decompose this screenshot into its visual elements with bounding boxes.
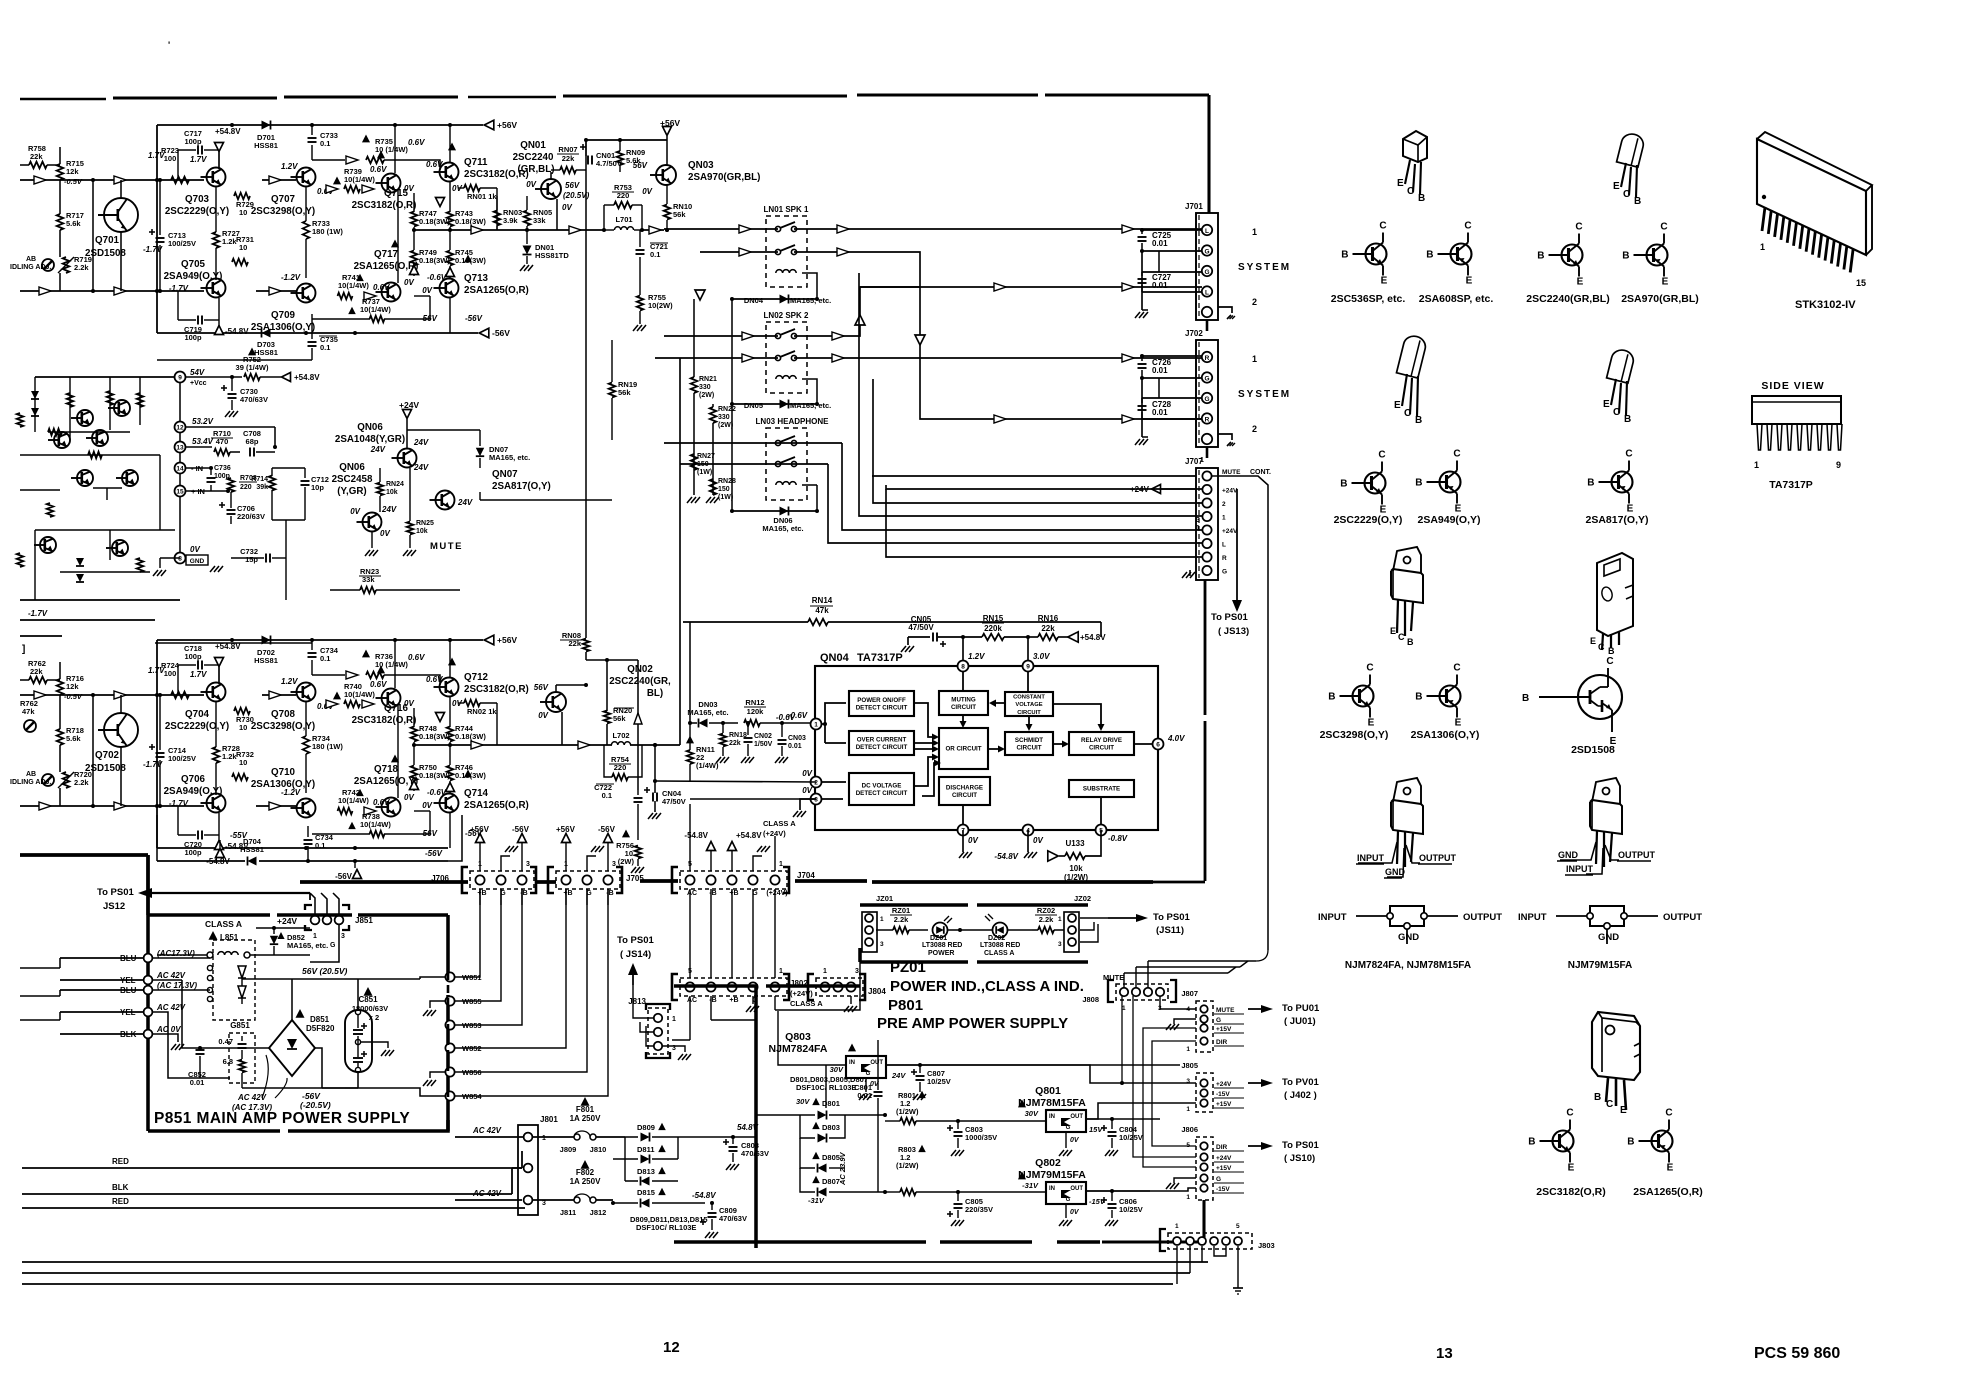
svg-text:Q708: Q708 [271,709,296,720]
svg-text:QN02: QN02 [627,664,653,675]
svg-text:2SA949(O,Y): 2SA949(O,Y) [1417,514,1480,526]
label NJM79M15FA [1568,960,1632,971]
svg-text:E: E [1455,504,1462,515]
svg-text:DN05: DN05 [744,401,763,410]
resistor RN21 330 (2W) [687,299,717,503]
svg-text:GND: GND [1558,850,1579,860]
svg-text:J809: J809 [560,1145,577,1154]
block RELAY DRIVE CIRCUIT [1069,732,1134,755]
transistor symbol 2SA1306 [1415,663,1461,729]
label D809 D811 D813 D815 DSF10C/RL103E [630,1215,708,1232]
module TA7317P side view [1752,380,1842,491]
svg-text:1: 1 [542,1135,546,1142]
svg-text:4: 4 [1186,1006,1190,1013]
svg-text:SIDE VIEW: SIDE VIEW [1761,380,1824,392]
svg-text:( JS14): ( JS14) [620,949,651,960]
svg-text:PZ01: PZ01 [890,959,926,976]
svg-text:RN07: RN07 [558,145,577,154]
svg-text:DISCHARGE: DISCHARGE [946,784,983,791]
node W854 [445,1091,482,1101]
resistor RN16 22k [961,614,1106,660]
ground TA7317P pin7 [959,830,972,858]
connector J702 [1185,329,1235,458]
wire relay crossover [855,252,1202,423]
svg-text:B: B [1341,250,1348,261]
svg-text:+B: +B [563,890,572,897]
resistor R742 [338,788,391,815]
label 2SC3298(O,Y) [1320,729,1389,741]
svg-text:3: 3 [1058,941,1062,948]
resistor R748 [411,708,451,745]
svg-text:Q713: Q713 [464,273,489,284]
svg-text:0.6V: 0.6V [373,283,390,292]
label 2SA970(GR,BL) [1621,293,1699,305]
block P801 border [674,986,1100,1248]
svg-text:G: G [1204,375,1209,382]
wire rectifier joins [678,1137,733,1203]
svg-text:HSS81: HSS81 [240,845,264,854]
svg-text:0.01: 0.01 [1152,408,1168,417]
svg-text:10(2W): 10(2W) [648,301,673,310]
svg-text:B: B [1608,646,1615,656]
svg-text:Q710: Q710 [271,767,296,778]
svg-text:OUT: OUT [1070,1186,1083,1192]
ground TA7317P pin4 [1024,830,1037,858]
svg-text:-56V: -56V [335,872,353,881]
svg-text:1: 1 [823,968,827,975]
svg-text:Q714: Q714 [464,788,489,799]
svg-text:OUTPUT: OUTPUT [1419,853,1457,863]
svg-text:0V: 0V [1033,836,1043,845]
label AC 42V arrows [232,1055,287,1112]
svg-text:1: 1 [1252,227,1257,237]
svg-text:2SA608SP, etc.: 2SA608SP, etc. [1419,293,1494,305]
connector J808 [1082,980,1176,1012]
svg-text:10(1/4W): 10(1/4W) [338,281,369,290]
svg-text:(1W): (1W) [697,469,712,476]
svg-text:1: 1 [1252,354,1257,364]
svg-text:0V: 0V [404,699,414,708]
resistor R752 39(1/4W) [186,348,320,383]
svg-text:3: 3 [341,933,345,940]
resistor R756 10 (2W) [616,830,644,874]
svg-text:To PS01: To PS01 [97,887,134,898]
wire J851 hooks [310,893,339,962]
svg-text:0.18(3W): 0.18(3W) [419,217,450,226]
block DISCHARGE CIRCUIT [939,777,990,805]
svg-text:22k: 22k [1041,624,1055,633]
svg-text:47k: 47k [815,606,829,615]
svg-text:(AC17.3V): (AC17.3V) [157,949,195,958]
diode STK internal D1 [31,391,39,416]
svg-text:CLASS A: CLASS A [763,819,796,828]
svg-text:(-20.5V): (-20.5V) [300,1100,331,1110]
node TA7317P pin 5 [1096,825,1107,836]
svg-text:2SA1265(O,R): 2SA1265(O,R) [464,800,529,811]
svg-text:47/50V: 47/50V [908,623,934,632]
wire mute bus vertical x1268 [1124,489,1268,988]
svg-text:100: 100 [164,154,177,163]
svg-text:(1/2W): (1/2W) [1064,873,1088,882]
svg-text:Q717: Q717 [374,249,399,260]
svg-text:220: 220 [240,484,252,491]
svg-text:3: 3 [855,968,859,975]
label AC 23.9V [838,1151,847,1186]
svg-text:INPUT: INPUT [1318,912,1347,923]
svg-text:0V: 0V [380,529,390,538]
svg-text:+56V: +56V [470,825,490,834]
resistor R740 [326,680,387,708]
svg-text:AC 42V: AC 42V [156,971,186,980]
resistor R744 [436,697,487,745]
resistor STK internal R1 [17,391,144,427]
svg-text:MA165, etc.: MA165, etc. [790,296,831,305]
label 2SD1508 [1571,744,1615,756]
svg-text:2SC3182(O,R): 2SC3182(O,R) [352,715,417,726]
svg-text:B: B [1415,478,1422,489]
svg-text:(2W): (2W) [718,422,733,429]
svg-text:1A 250V: 1A 250V [570,1114,602,1123]
svg-text:SYSTEM: SYSTEM [1238,389,1291,400]
svg-text:0.1: 0.1 [320,343,330,352]
svg-text:To PS01: To PS01 [1153,912,1190,923]
wire pin12 line [186,427,275,447]
svg-text:+24V: +24V [1222,528,1238,535]
svg-text:TA7317P: TA7317P [1769,479,1813,491]
svg-text:10(1/4W): 10(1/4W) [344,175,375,184]
connector J801 [472,1115,558,1215]
transistor STK internal Q1 [71,410,93,426]
diode D703 HSS81 ch1 bottom [254,329,278,358]
svg-text:10k: 10k [416,528,428,535]
svg-text:5: 5 [688,968,692,975]
svg-text:56k: 56k [673,210,686,219]
svg-text:IN: IN [1049,1114,1055,1120]
svg-text:1: 1 [1196,525,1200,532]
wire headphone lines [664,443,1202,570]
svg-text:B: B [1426,250,1433,261]
svg-text:+54.8V: +54.8V [736,831,762,840]
capacitor CN04 47/50V [644,743,686,819]
svg-text:B: B [1537,251,1544,262]
wire interstage upper [226,162,298,196]
svg-text:MUTE: MUTE [1216,1007,1235,1014]
LED DZ02 LT3088 RED CLASS A [960,914,1032,957]
svg-text:0.6V: 0.6V [408,138,425,147]
svg-text:2.2k: 2.2k [74,778,89,787]
fuse F802 1A 250V [533,1160,613,1217]
svg-text:56V (20.5V): 56V (20.5V) [302,966,348,976]
svg-text:CIRCUIT: CIRCUIT [951,704,976,711]
capacitor C734 [308,640,339,675]
svg-text:HSS81: HSS81 [254,656,278,665]
svg-text:D5F820: D5F820 [306,1024,335,1033]
svg-text:P851 MAIN AMP POWER SUPPLY: P851 MAIN AMP POWER SUPPLY [154,1110,410,1127]
wire speaker line ch1 lower [700,229,920,310]
wire ch1 output line to relays [497,226,700,234]
svg-text:R: R [1222,555,1227,562]
resistor R735 [312,135,440,171]
svg-text:DETECT CIRCUIT: DETECT CIRCUIT [856,790,908,797]
svg-text:330: 330 [699,384,711,391]
transistor Q701 [85,151,165,291]
svg-text:C: C [1398,632,1405,642]
capacitor C721 0.1 [636,230,669,259]
resistor R803 1.2 (1/2W) [883,1145,1046,1196]
diode D807 [800,1168,885,1205]
svg-text:POWER: POWER [928,950,954,957]
svg-text:2SA817(O,Y): 2SA817(O,Y) [1585,514,1648,526]
svg-text:2SD1508: 2SD1508 [85,763,126,774]
wire right border vertical to J701 [1207,95,1210,213]
svg-text:-1.2V: -1.2V [281,273,301,282]
svg-text:2SC2229(O,Y): 2SC2229(O,Y) [165,721,229,732]
wire To PS01 JS14 [617,935,654,1046]
svg-text:GND: GND [190,558,205,565]
svg-text:0.1: 0.1 [602,791,612,800]
svg-text:B: B [1627,1137,1634,1148]
svg-text:MUTE: MUTE [430,541,463,552]
svg-text:E: E [1397,178,1404,189]
svg-text:C: C [1606,1099,1613,1110]
svg-text:0.01: 0.01 [857,1091,872,1100]
svg-text:1A 250V: 1A 250V [570,1177,602,1186]
wire TA7317 pin2 pin3 feeds [655,781,816,799]
svg-text:15: 15 [1856,278,1866,288]
capacitor CN02 1/50V [741,723,773,763]
capacitor C732 15p [231,520,286,600]
svg-text:2: 2 [814,780,818,787]
resistor R755 10(2W) [633,257,673,331]
transistor symbol 2SA1265 [1627,1108,1673,1174]
wire input lower [20,802,204,810]
transistor symbol 2SA817 [1587,449,1633,515]
svg-text:(1W): (1W) [718,494,733,501]
svg-text:2.2k: 2.2k [74,263,89,272]
svg-text:G: G [1222,569,1227,576]
svg-text:Q701: Q701 [95,235,120,246]
svg-text:To PS01: To PS01 [617,935,654,946]
svg-text:-55V: -55V [230,831,248,840]
resistor R758 [20,144,60,168]
svg-text:B: B [1634,196,1641,207]
svg-text:2SC3182(O,R): 2SC3182(O,R) [1536,1186,1605,1198]
svg-text:0V: 0V [526,180,536,189]
wire J707 right loops [1212,476,1268,571]
svg-text:RN24: RN24 [386,481,404,488]
svg-text:D801: D801 [822,1099,840,1108]
label D801 D803 D805 D807 DSF10C [790,1075,868,1092]
svg-text:L: L [1205,289,1209,296]
svg-text:+15V: +15V [1216,1101,1232,1108]
resistor RN19 56k [609,340,637,440]
svg-text:B: B [1407,637,1414,647]
transistor Q704 [165,670,229,732]
svg-text:2: 2 [1252,297,1257,307]
svg-text:PCS 59 860: PCS 59 860 [1754,1345,1840,1362]
connector P851 AC inputs [60,949,197,1050]
resistor R747 [411,193,451,230]
svg-text:2SD1508: 2SD1508 [1571,744,1615,756]
svg-text:PRE AMP POWER SUPPLY: PRE AMP POWER SUPPLY [877,1015,1068,1032]
svg-text:P801: P801 [888,997,923,1014]
svg-text:C: C [1379,221,1386,232]
node W853 [445,1020,481,1030]
transistor STK internal Q5 [34,537,128,556]
label 2SA1265(O,R) [1633,1186,1702,1198]
transistor symbol 2SD1508 darlington [1522,656,1622,747]
svg-text:AC: AC [687,997,697,1004]
svg-text:-56V: -56V [420,314,438,323]
label 2SC2240(GR,BL) [1526,293,1609,305]
svg-text:1: 1 [1222,515,1226,522]
svg-text:SYSTEM: SYSTEM [1238,262,1291,273]
svg-text:0.18(3W): 0.18(3W) [419,256,450,265]
resistor R727 [213,187,240,280]
wire J704 feeds [684,804,796,871]
svg-text:E: E [1613,181,1620,192]
svg-text:(+24V): (+24V) [790,989,813,998]
capacitor C735 0.1 ch1 [308,314,338,360]
svg-text:RZ02: RZ02 [1037,906,1055,915]
capacitor C708 68p [243,429,277,457]
svg-text:J806: J806 [1181,1125,1198,1134]
svg-text:G: G [1204,269,1209,276]
resistor RN09 5.6k [617,140,645,172]
svg-text:DETECT CIRCUIT: DETECT CIRCUIT [856,744,908,751]
label PZ01 POWER IND CLASS A IND [890,959,1084,995]
connector J803 [1160,1223,1275,1251]
wire D702 feedback line [155,642,312,644]
package TO-92 2SC536SP [1397,131,1427,204]
resistor R746 [446,745,487,793]
svg-text:D803: D803 [822,1123,840,1132]
svg-text:+Vcc: +Vcc [190,380,207,387]
relay LN01 SPK1 [764,205,809,287]
resistor R708 220 [228,475,257,500]
transistor symbol 2SC3182 [1528,1108,1574,1174]
wire bottom long bus lines [22,1262,1208,1284]
svg-text:12: 12 [663,1339,680,1356]
transistor symbol 2SC2229 [1340,450,1386,516]
svg-text:220k: 220k [984,624,1002,633]
svg-text:10(1/4W): 10(1/4W) [338,796,369,805]
resistor R710 470 [186,429,240,455]
node TA7317P pin 3 [811,794,822,805]
svg-text:NJM79M15FA: NJM79M15FA [1568,960,1632,971]
svg-text:10: 10 [239,243,247,252]
wire J701 ground bus [1135,249,1159,318]
wire J704 to J802 verticals [690,889,775,978]
svg-text:10k: 10k [386,489,398,496]
svg-text:(2W): (2W) [618,857,635,866]
svg-text:56V: 56V [565,181,580,190]
wire output node row [306,741,497,848]
svg-text:2SC2229(O,Y): 2SC2229(O,Y) [1334,514,1403,526]
wire speaker line ch2 upper [664,310,860,340]
wire pin14 pin15 lines [186,466,230,493]
svg-text:DSF10C/ RL103E: DSF10C/ RL103E [636,1223,696,1232]
svg-text:C: C [1623,189,1630,200]
resistor R743 [436,182,487,230]
transistor symbol 2SA970 [1622,222,1668,288]
diode D704 HSS81 ch2 [230,831,264,866]
svg-text:0.6V: 0.6V [370,165,387,174]
svg-text:+56V: +56V [660,118,680,128]
wire ch2 -56V right hook [448,815,462,861]
resistor RN02 [458,700,497,745]
diode D805 [800,1138,845,1173]
diode D813 [625,1137,678,1186]
node +54.8V top [215,642,242,684]
svg-text:3: 3 [814,797,818,804]
wire stk feedback lines [20,600,155,655]
resistor R718 [57,695,84,772]
svg-text:E: E [1603,399,1610,410]
svg-text:+B: +B [729,997,738,1004]
label +24V feed [1130,485,1196,495]
svg-text:3: 3 [880,941,884,948]
resistor RN14 47k [683,596,1101,637]
svg-text:(1/4W): (1/4W) [696,761,719,770]
diode DN03 MA165 [687,700,738,728]
svg-text:C: C [1660,222,1667,233]
svg-text:CIRCUIT: CIRCUIT [1089,745,1114,752]
svg-text:56k: 56k [613,714,626,723]
svg-text:OUT: OUT [1070,1114,1083,1120]
node -54.8V bottom [215,320,250,336]
svg-text:1: 1 [672,1016,676,1023]
capacitor C726 0.01 [1138,354,1203,378]
connector JZ02 [1058,894,1091,952]
svg-text:J808: J808 [1082,995,1099,1004]
capacitor C720 [178,806,219,857]
svg-text:5.6k: 5.6k [66,734,81,743]
wire interstage lower [248,777,301,810]
node W856 [445,1067,481,1077]
label R760 R762 extra ch2 [20,699,38,732]
svg-text:E: E [1627,504,1634,515]
svg-text:C: C [1665,1108,1672,1119]
svg-text:G: G [1216,1017,1221,1024]
svg-text:LN02 SPK 2: LN02 SPK 2 [764,311,809,320]
transistor QN01 2SC2240 [513,140,590,230]
svg-text:10(1/4W): 10(1/4W) [360,820,391,829]
svg-text:BL): BL) [647,688,663,699]
svg-text:-1.7V: -1.7V [28,609,48,618]
svg-text:C736: C736 [214,465,231,472]
svg-text:22k: 22k [729,740,741,747]
resistor R749 [410,230,451,276]
svg-text:9: 9 [178,375,182,382]
label P801 PRE AMP POWER SUPPLY [877,997,1068,1032]
resistor R739 [326,165,387,193]
diode D852 MA165 [270,928,328,955]
node W855 [445,996,481,1006]
wire input lower [20,287,204,295]
block CONSTANT VOLTAGE CIRCUIT [1005,692,1053,716]
diode DN01 HSS81TD [520,228,569,271]
capacitor C719 [178,291,219,342]
svg-text:+24V: +24V [1216,1081,1232,1088]
label P851 MAIN AMP POWER SUPPLY [154,1110,410,1127]
wire upper rail drops [157,125,450,173]
svg-text:QN06: QN06 [357,422,383,433]
transistor symbol 2SC3298 [1328,663,1374,729]
svg-text:10(1/4W): 10(1/4W) [360,305,391,314]
svg-text:(Y,GR): (Y,GR) [337,486,366,497]
svg-text:J803: J803 [1258,1241,1275,1250]
